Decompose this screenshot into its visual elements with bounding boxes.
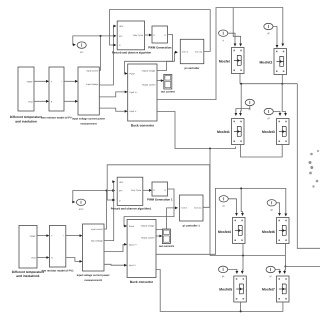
scope: out current [161, 74, 175, 93]
svg-text:Input V+: Input V+ [129, 243, 138, 246]
svg-text:Mosfet2: Mosfet2 [259, 60, 272, 64]
svg-text:Perturb and observe algorithm: Perturb and observe algorithm [112, 52, 152, 55]
svg-text:Pulse: Pulse [130, 72, 136, 75]
wire: measurement V- to buck [99, 108, 127, 113]
wire: Mosfet6 column to Mosfet7 drain with phase output [283, 256, 286, 275]
transistor block: Mosfet1 [217, 119, 244, 145]
wire: measured voltage1 to P&O1 input 1 [104, 180, 115, 240]
block: Perturb and observe algorithm1 [111, 177, 152, 210]
wire: gate g4 to Mosfet4 [228, 199, 238, 216]
svg-text:Input V+: Input V+ [130, 91, 139, 94]
svg-text:Output current: Output current [142, 83, 156, 86]
svg-text:pi controller 1: pi controller 1 [183, 224, 201, 227]
svg-text:Con out: Con out [194, 206, 202, 209]
block: PWM Generation [148, 26, 171, 49]
wire: Mosfet source to mid rail [239, 73, 241, 84]
wire: rad to PV model 1 [37, 256, 49, 259]
svg-text:Buck converter: Buck converter [130, 280, 154, 284]
svg-text:Mosfet1: Mosfet1 [217, 130, 230, 134]
wire: phase output of H-bridge 1 to right edge [297, 84, 320, 249]
wire: Mosfet4 source to mid rail 2 [242, 243, 244, 256]
svg-text:Duty Cycle: Duty Cycle [131, 189, 142, 192]
block: Buck converter1 [127, 220, 156, 284]
from tag: g2 [264, 23, 273, 35]
svg-text:input current: input current [91, 228, 103, 231]
wire: temp to PV model 1 [37, 234, 49, 237]
wire: duty cycle to PWM [145, 34, 152, 37]
wire: rad to PV model [34, 100, 49, 103]
svg-text:pi controller: pi controller [185, 67, 200, 70]
wire: Mosfet2 source to mid rail [281, 74, 283, 84]
svg-text:Mosfet5: Mosfet5 [219, 287, 232, 291]
transistor block: Mosfet6 [262, 218, 289, 244]
wire: PV plus to measurement [64, 80, 78, 83]
block: Different temperature and insolation [10, 67, 43, 123]
wire: buck DC+ to top rail of H-bridge 1 [157, 8, 284, 100]
svg-text:Mosfet3: Mosfet3 [262, 130, 275, 134]
decoration: gray marks at right edge [309, 150, 320, 188]
wire: pi controller1 feedback loop to P&O1 input 3 [107, 165, 210, 208]
wire: buck DC- to Mosfet1 lower port [157, 112, 236, 149]
svg-text:input voltage current power: input voltage current power [77, 274, 110, 277]
svg-text:and insolation1: and insolation1 [16, 274, 40, 278]
from tag: g7 [266, 266, 275, 278]
wire: measurement1 V- to buck1 [104, 264, 127, 267]
block: pi controller 1 [180, 195, 204, 227]
svg-text:PWM Generation: PWM Generation [148, 45, 171, 49]
wire: phase output of H-bridge 2 to right edge [285, 266, 320, 268]
wire: drain feed Mosfet4 [240, 187, 244, 216]
transistor block: Mosfet4 [218, 218, 245, 244]
svg-text:input voltage current power: input voltage current power [72, 118, 105, 121]
wire: measurement1 V+ to buck1 [104, 243, 127, 252]
svg-text:Mosfet6: Mosfet6 [262, 230, 275, 234]
svg-text:two resistor model of PV1: two resistor model of PV1 [42, 270, 74, 273]
wire: gate g3 to Mosfet3 [273, 112, 281, 117]
svg-text:Output voltage: Output voltage [142, 69, 156, 72]
wire: cascade link down to H-bridge 2 mid rail [209, 148, 211, 256]
transistor block: Mosfet [219, 48, 244, 74]
from tag: g [219, 30, 228, 42]
wire: gate g6 to Mosfet6 [276, 203, 281, 216]
svg-text:PWM Generation 1: PWM Generation 1 [147, 198, 173, 202]
wire: buck1 output current to scope1 [156, 235, 162, 238]
from tag: g3 [264, 108, 273, 120]
wire: buck1 DC- to bottom rail of H-bridge 2 [156, 270, 283, 312]
wire: gate g1 to Mosfet1 [235, 106, 250, 116]
svg-text:Output voltage: Output voltage [141, 224, 155, 227]
wire: pi controller feedback loop to P&O input 3 [110, 10, 211, 52]
wire: Mosfet5 source to bottom rail [240, 302, 242, 313]
from tag: g4 [219, 196, 228, 208]
svg-text:Input V-: Input V- [130, 110, 137, 113]
wire: drain feed Mosfet3 [282, 84, 287, 116]
svg-text:Input V-: Input V- [129, 264, 136, 267]
wire: PV1 minus to measurement1 [66, 258, 83, 263]
wire: source rail of H-bridge 1 lower row [241, 144, 283, 157]
svg-text:measurement: measurement [80, 123, 96, 126]
wire: measured voltage to P&O input 1 [99, 25, 116, 85]
svg-text:Con out: Con out [195, 50, 203, 53]
wire: buck1 DC+ to top rail of H-bridge 2 [156, 188, 287, 254]
transistor block: Mosfet3 [262, 119, 289, 145]
block: Different temperature and insolation1 [12, 226, 45, 279]
wire: gate g2 to Mosfet2 [273, 27, 278, 49]
wire: measured current1 to goto tag and P&O1 input 2 [72, 189, 115, 229]
svg-text:Mosfet: Mosfet [219, 59, 231, 63]
transistor block: Mosfet5 [219, 276, 246, 302]
wire: duty cycle 1 to PWM1 [143, 189, 152, 192]
goto tag: IPV2 [76, 199, 85, 211]
block: Perturb and observe algorithm [112, 21, 152, 55]
from tag: g5 [219, 266, 228, 278]
wire: PV minus to measurement [64, 100, 78, 103]
svg-text:Pulse: Pulse [129, 225, 135, 228]
wire: drain feed Mosfet [233, 8, 242, 47]
block: Buck converter [128, 64, 157, 128]
wire: buck1 output voltage to pi controller1 [156, 207, 178, 230]
from tag: g6 [267, 200, 276, 212]
transistor block: Mosfet7 [262, 276, 289, 302]
wire: buck output current to scope [157, 79, 164, 82]
block: input voltage current power measurement [72, 67, 105, 126]
svg-text:UPV: UPV [119, 181, 124, 184]
svg-text:TEMP: TEMP [29, 235, 36, 238]
wire: Mosfet6 source to mid rail 2 [284, 243, 286, 256]
wire: temp to PV model [34, 80, 49, 83]
svg-text:two resistor model of PV: two resistor model of PV [41, 116, 72, 119]
wire: drain feed Mosfet1 [239, 83, 242, 116]
wire: buck output voltage to pi controller [157, 51, 178, 71]
svg-text:measurement1: measurement1 [84, 279, 102, 282]
svg-text:UPV: UPV [119, 25, 124, 28]
svg-text:and insolation: and insolation [15, 119, 37, 123]
svg-text:IPV: IPV [80, 51, 84, 54]
wire: PWM1 pulse to buck converter1 [124, 189, 174, 227]
wire: gate g7 to Mosfet7 [275, 270, 281, 275]
svg-text:input voltage: input voltage [86, 83, 99, 86]
block: input voltage current power measurement1 [77, 224, 110, 282]
block: two resistor model of PV1 [42, 226, 74, 273]
svg-text:Perturb and observe algorithm1: Perturb and observe algorithm1 [111, 207, 152, 210]
wire: mid rail of H-bridge 2 [210, 255, 285, 257]
svg-text:out current1: out current1 [159, 245, 175, 248]
svg-text:TEMP: TEMP [26, 80, 33, 83]
svg-text:Output current: Output current [141, 236, 155, 239]
svg-text:input current: input current [86, 70, 98, 73]
svg-text:Mosfet4: Mosfet4 [218, 230, 231, 234]
wire: mid rail (phase node) of H-bridge 1 [240, 83, 297, 85]
svg-text:input voltage: input voltage [91, 240, 104, 243]
from tag: g1 [245, 99, 254, 111]
wire: gate g5 to Mosfet5 [228, 269, 239, 274]
transistor block: Mosfet2 [259, 49, 286, 75]
block: pi controller [180, 39, 204, 70]
goto tag: IPV [77, 42, 86, 54]
wire: measured current to goto tag and P&O input 2 [73, 35, 117, 71]
svg-text:Buck converter: Buck converter [131, 124, 155, 128]
svg-text:Duty Cycle: Duty Cycle [133, 34, 144, 37]
wire: drain feed Mosfet5 [241, 256, 244, 275]
svg-text:Con in: Con in [181, 206, 188, 209]
svg-text:out current: out current [161, 91, 175, 94]
wire: measurement V+ to buck [99, 91, 127, 97]
svg-text:Mosfet7: Mosfet7 [262, 287, 275, 291]
svg-text:Con in: Con in [182, 50, 189, 53]
wire: PV1 plus to measurement1 [66, 234, 83, 237]
wire: gate g to Mosfet [228, 33, 237, 46]
block: two resistor model of PV [41, 67, 72, 119]
scope: out current1 [159, 229, 175, 248]
wire: PWM pulse to buck converter [125, 35, 173, 75]
block: PWM Generation 1 [147, 182, 173, 202]
